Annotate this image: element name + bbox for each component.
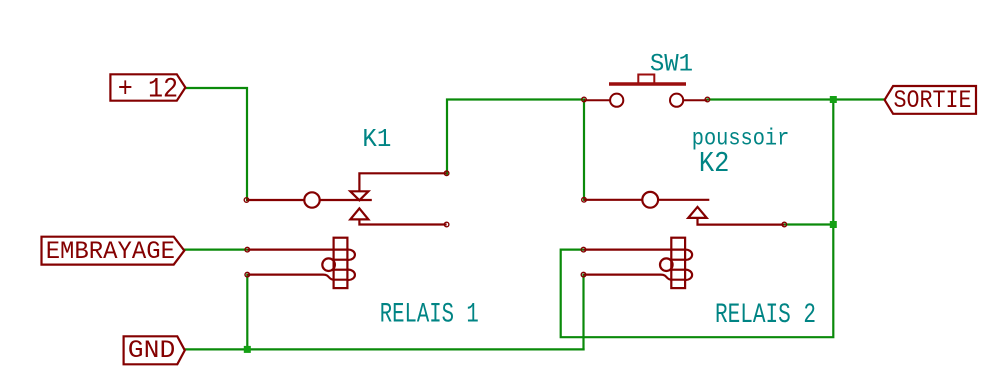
svg-text:EMBRAYAGE: EMBRAYAGE (46, 237, 175, 266)
svg-text:RELAIS 1: RELAIS 1 (380, 299, 479, 330)
svg-text:K1: K1 (362, 125, 391, 154)
svg-text:SORTIE: SORTIE (894, 86, 972, 115)
svg-text:K2: K2 (699, 147, 730, 180)
svg-text:+ 12: + 12 (118, 75, 178, 106)
svg-text:SW1: SW1 (650, 49, 693, 78)
svg-text:RELAIS 2: RELAIS 2 (715, 300, 816, 331)
svg-text:GND: GND (128, 336, 176, 365)
